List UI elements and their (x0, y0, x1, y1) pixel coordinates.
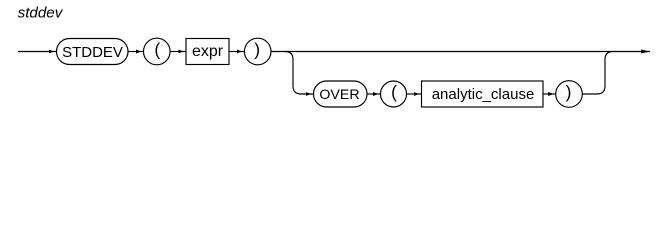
wire branch back up to main line (582, 52, 613, 95)
keyword STDDEV (57, 39, 129, 65)
wire analytic_clause to ) (543, 93, 556, 95)
svg-text:): ) (254, 39, 260, 59)
svg-text:(: ( (391, 82, 397, 102)
delimiter ( circle (144, 38, 171, 65)
wire ( to analytic_clause (407, 93, 422, 95)
svg-text:expr: expr (192, 43, 224, 60)
operand analytic_clause box (422, 81, 544, 107)
wire OVER to ( (367, 93, 381, 95)
svg-text:(: ( (154, 39, 160, 59)
svg-text:): ) (566, 82, 572, 102)
delimiter ( circle row2 (381, 81, 407, 107)
svg-text:OVER: OVER (319, 87, 359, 103)
delimiter ) circle row2 (556, 81, 583, 108)
wire branch down to OVER row (285, 52, 314, 95)
svg-text:stddev: stddev (18, 4, 64, 21)
delimiter ) circle (244, 38, 271, 65)
keyword OVER (314, 81, 368, 107)
operand expr box (186, 39, 229, 65)
wire main line to end arrow (271, 51, 650, 53)
svg-text:STDDEV: STDDEV (62, 44, 123, 61)
wire start arrow into STDDEV (18, 51, 57, 53)
wire expr to ) (229, 51, 245, 53)
wire STDDEV to ( (128, 51, 144, 53)
wire ( to expr (170, 51, 186, 53)
svg-text:analytic_clause: analytic_clause (432, 86, 535, 103)
